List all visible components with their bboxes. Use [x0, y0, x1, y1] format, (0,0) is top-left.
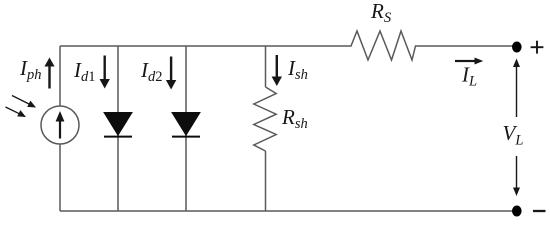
I_ph arrow — [44, 58, 54, 89]
svg-text:Iph: Iph — [19, 56, 42, 83]
svg-text:IL: IL — [461, 63, 477, 90]
I_d1 arrow — [100, 56, 110, 89]
wire diode branch 2 — [185, 46, 187, 211]
wire left — [59, 46, 61, 211]
I_d2 arrow — [166, 57, 176, 90]
wire diode branch 1 — [117, 46, 119, 211]
light ray arrow 1 — [12, 96, 36, 108]
wire shunt branch lower — [265, 151, 267, 211]
svg-text:VL: VL — [503, 121, 524, 149]
svg-text:Rsh: Rsh — [281, 105, 308, 132]
svg-text:Ish: Ish — [287, 56, 308, 83]
I_sh arrow — [272, 55, 282, 86]
wire bottom — [60, 210, 513, 212]
light ray arrow 2 — [6, 107, 27, 117]
node - terminal dot — [512, 206, 522, 217]
V_L arrow up — [513, 59, 520, 118]
svg-text:Id1: Id1 — [73, 58, 96, 85]
diode D2 — [172, 113, 200, 137]
minus sign — [533, 210, 546, 212]
resistor R_sh — [254, 87, 276, 151]
node + terminal dot — [512, 42, 522, 53]
svg-text:Id2: Id2 — [140, 58, 163, 85]
wire top: left corner to Rs — [60, 45, 348, 47]
I_L arrow — [455, 58, 483, 65]
V_L arrow down — [513, 156, 520, 196]
wire: Rs to + terminal — [419, 45, 513, 47]
current source U1 circle — [41, 106, 79, 144]
diode D1 — [104, 113, 132, 137]
resistor R_S — [348, 31, 420, 60]
plus sign — [531, 41, 544, 54]
current source arrow — [56, 111, 65, 139]
svg-text:RS: RS — [370, 0, 392, 26]
wire shunt branch upper — [265, 46, 267, 87]
